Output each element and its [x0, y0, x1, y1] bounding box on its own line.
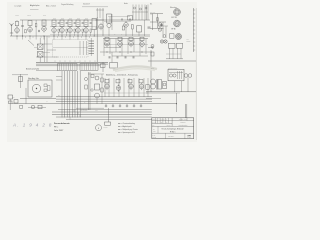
IF transformer IF transformer Tr3 — [52, 20, 56, 27]
transformer box small — [19, 77, 23, 82]
wire — [186, 104, 188, 118]
diode — [133, 104, 135, 107]
wire — [127, 39, 129, 55]
coil — [116, 79, 120, 83]
wire — [166, 53, 181, 55]
capacitor C21 — [160, 23, 162, 27]
wire pair — [89, 72, 91, 110]
wire — [29, 26, 31, 28]
diode — [105, 104, 107, 107]
node H — [163, 35, 166, 38]
cable bundle (8 wires) — [62, 71, 80, 118]
node M — [91, 89, 93, 91]
tuning indicator pair — [160, 40, 167, 43]
wire — [177, 48, 179, 59]
wire stubs — [70, 110, 80, 120]
wire — [131, 29, 133, 36]
wire — [77, 34, 79, 36]
svg-text:EF80: EF80 — [77, 18, 80, 20]
svg-text:FE 852 C: FE 852 C — [170, 131, 176, 133]
wire stub — [79, 60, 81, 62]
svg-text:zum Tuner: zum Tuner — [150, 12, 156, 14]
wire — [56, 98, 152, 100]
band switch S2 — [80, 64, 98, 71]
wire stub — [53, 36, 55, 40]
wire — [111, 52, 113, 63]
svg-text:Jahr 1957: Jahr 1957 — [54, 129, 64, 132]
capacitor C16 — [125, 56, 126, 58]
choke — [163, 82, 167, 89]
antenna — [10, 23, 14, 33]
wire — [56, 79, 62, 81]
coil L5 — [132, 25, 134, 30]
fuse Si1 — [105, 122, 111, 125]
wire — [34, 47, 37, 49]
wire — [104, 44, 148, 46]
svg-text:102-852: 102-852 — [152, 137, 156, 139]
wire — [169, 48, 171, 59]
wire — [96, 17, 98, 62]
svg-text:FE c: FE c — [54, 126, 58, 128]
wire — [145, 39, 147, 55]
tube Rö18 (PY 81) — [129, 83, 134, 90]
electrolytic capacitor C22 — [151, 45, 154, 48]
coil — [140, 37, 144, 41]
wire — [58, 109, 152, 111]
wire — [85, 34, 87, 36]
capacitor coupling — [90, 22, 92, 25]
wire — [90, 38, 92, 56]
shield box video amp — [107, 14, 112, 23]
wire — [39, 38, 41, 44]
IF transformer Tr2 — [42, 20, 46, 26]
wire junction dots — [106, 51, 142, 52]
wire stub — [22, 36, 24, 40]
band switch S1 — [58, 64, 78, 71]
capacitor coupling — [58, 22, 60, 25]
capacitor C17 — [133, 56, 134, 58]
IF transformer IF transformer Tr6 — [76, 20, 80, 27]
wire — [22, 20, 24, 24]
resistor R1 — [35, 24, 37, 27]
tube Rö5 (EF 80) — [60, 27, 65, 34]
wire — [181, 81, 183, 92]
resistor R40 — [100, 64, 105, 68]
tube socket diagram EF 80 — [174, 20, 181, 27]
wire — [166, 58, 183, 60]
wire stub — [69, 60, 71, 62]
wire — [96, 98, 98, 104]
wire — [176, 93, 178, 112]
wire — [79, 41, 81, 55]
scan smudge 2 — [115, 69, 155, 72]
rectifier cell 2 — [173, 74, 176, 77]
svg-text:zum: zum — [187, 39, 189, 41]
svg-text:Bl. 1: Bl. 1 — [172, 136, 175, 138]
wire — [43, 43, 52, 45]
svg-text:PCF80: PCF80 — [27, 15, 31, 17]
wire — [44, 36, 46, 62]
legend symbol — [118, 131, 120, 133]
wire stub — [77, 36, 79, 40]
underline of stamp — [30, 8, 39, 10]
wire — [118, 78, 120, 97]
resistor leg — [58, 29, 59, 32]
wire — [152, 14, 154, 30]
wire — [69, 27, 71, 29]
capacitor C12 — [148, 27, 151, 28]
resistor R25 — [122, 26, 125, 30]
wire overline — [82, 6, 108, 8]
wire stub — [54, 60, 56, 62]
capacitor coupling — [82, 22, 84, 25]
wire stub — [48, 36, 50, 38]
wire stub — [16, 36, 18, 40]
motor cap — [31, 105, 35, 109]
resistor R45 — [38, 105, 42, 108]
tube socket diagram EABC 80 — [175, 33, 181, 39]
tube Rö7 (EF 80) — [76, 27, 81, 34]
variable capacitor C30 — [37, 44, 43, 49]
wire screen rail partial — [50, 34, 150, 36]
wire — [99, 8, 101, 18]
wire — [77, 27, 79, 29]
wire diagonal — [28, 40, 34, 46]
svg-text:EF 80: EF 80 — [172, 28, 176, 30]
wire stub — [43, 36, 45, 40]
wire — [138, 78, 140, 97]
resistor leg — [90, 29, 91, 32]
wire — [53, 47, 88, 49]
capacitor C15 — [117, 56, 118, 58]
wire — [165, 26, 167, 38]
svg-text:EF80: EF80 — [85, 18, 88, 20]
wire — [138, 32, 140, 36]
wire — [148, 47, 153, 49]
wire — [108, 22, 110, 24]
tube Rö3 (EF 80) — [42, 25, 47, 32]
capacitor C2 — [39, 30, 40, 32]
stamp circle — [96, 125, 102, 131]
wire stub — [32, 36, 34, 38]
tube Rö19 (DY 86) — [139, 83, 144, 90]
mains transformer — [151, 79, 162, 90]
wire — [123, 78, 125, 97]
wire stub — [40, 36, 42, 38]
svg-text:220V: 220V — [12, 97, 15, 99]
wire — [150, 50, 152, 92]
wire stub — [59, 60, 61, 62]
svg-text:ECC 85: ECC 85 — [172, 17, 177, 19]
IF transformer Tr9 — [137, 26, 142, 32]
svg-text:Tr 10: Tr 10 — [151, 68, 154, 70]
legend symbol — [118, 128, 120, 130]
wire — [162, 22, 164, 38]
resistor R22 — [151, 52, 154, 56]
wire — [104, 92, 148, 94]
connector block X4 — [20, 106, 23, 109]
tube Rö2 (PCF 80) — [28, 26, 33, 33]
wire — [12, 74, 28, 76]
wire — [9, 99, 11, 110]
svg-text:Maß 1:1: Maß 1:1 — [167, 125, 171, 127]
wire — [82, 32, 84, 36]
wire chassis bus — [36, 61, 108, 63]
capacitor C14 — [109, 56, 110, 58]
resistor R2 — [25, 30, 27, 33]
title block — [152, 118, 194, 140]
wire — [95, 27, 99, 29]
resistor ladder R34 — [89, 50, 95, 52]
capacitor coupling — [74, 22, 76, 25]
svg-text:A. 1 9 4 2 8: A. 1 9 4 2 8 — [12, 123, 53, 128]
svg-text:= Spannungen ±10%: = Spannungen ±10% — [121, 132, 135, 134]
wire — [52, 114, 152, 116]
wire junction dots — [16, 35, 44, 36]
wire — [12, 103, 56, 105]
wire stub — [89, 60, 91, 62]
svg-text:Bl.1: Bl.1 — [150, 3, 153, 5]
resistor R59 — [85, 85, 88, 89]
wire — [56, 76, 62, 78]
wire — [43, 52, 50, 54]
wire — [53, 27, 55, 29]
wire — [108, 16, 130, 18]
tube Rö11 (PABC 80) — [124, 21, 129, 28]
wire — [93, 30, 95, 37]
variable capacitor C31 — [37, 52, 43, 57]
capacitor C1 — [21, 24, 23, 28]
wire — [139, 39, 141, 57]
wire — [108, 108, 110, 122]
wire stub — [74, 60, 76, 62]
wire — [111, 14, 113, 30]
wire — [146, 97, 161, 99]
wire — [101, 74, 103, 104]
wire — [61, 27, 63, 29]
legend symbol — [118, 126, 120, 128]
selenium stack — [169, 71, 183, 79]
wire — [88, 73, 104, 75]
coil — [105, 79, 109, 83]
tube Rö15 (EL 84) — [140, 40, 145, 47]
IF transformer IF transformer Tr7 — [84, 20, 88, 27]
wire stub — [84, 60, 86, 62]
peaking coil group — [132, 5, 148, 21]
resistor leg — [74, 29, 75, 32]
capacitor C80 — [184, 74, 188, 78]
svg-text:EF80: EF80 — [61, 18, 64, 20]
wire — [16, 26, 18, 28]
coil L1 — [15, 22, 19, 26]
wire anode rail — [20, 19, 150, 21]
wire junction dots — [53, 35, 94, 36]
wire pair — [88, 72, 90, 110]
svg-text:a 12.3. Kr: a 12.3. Kr — [152, 119, 157, 121]
wire — [95, 19, 104, 21]
wire — [133, 39, 135, 53]
shield box small — [170, 34, 175, 39]
wire stub — [35, 36, 37, 40]
wire — [69, 34, 71, 36]
wire — [187, 77, 189, 92]
wire — [104, 21, 131, 23]
sound discriminator box — [128, 16, 133, 20]
wire stub — [81, 36, 83, 38]
wire stub — [25, 36, 27, 38]
resistor leg — [66, 29, 67, 32]
crystal diode pair — [158, 23, 162, 32]
node K — [129, 19, 131, 21]
svg-text:EF80: EF80 — [53, 18, 56, 20]
wire — [35, 20, 37, 24]
shielded coil Tr8 — [92, 19, 97, 30]
wire heater bus — [36, 63, 108, 65]
wire — [43, 25, 45, 28]
tube socket diagram ECC 85 — [174, 9, 181, 16]
resistor ladder R33 — [89, 48, 95, 50]
wire — [25, 88, 27, 104]
electrolytic capacitor C61 — [95, 93, 100, 98]
wire — [104, 78, 106, 97]
svg-text:PCC84: PCC84 — [15, 15, 19, 17]
loudspeaker — [28, 80, 52, 97]
terminal strip — [193, 8, 195, 52]
wire — [36, 56, 58, 58]
wire — [56, 103, 177, 105]
wire — [66, 32, 68, 36]
power supply box — [168, 69, 184, 81]
wire stub — [29, 36, 31, 40]
wire — [85, 27, 87, 29]
resistor R63 — [101, 88, 103, 92]
wire — [102, 8, 104, 36]
wire — [108, 28, 110, 36]
capacitor coupling — [66, 22, 68, 25]
wire — [22, 28, 24, 36]
svg-text:EF80: EF80 — [69, 18, 72, 20]
tube Rö8 (EF 80) — [84, 27, 89, 34]
wire — [56, 100, 152, 102]
svg-text:6,3V: 6,3V — [150, 14, 153, 16]
wire — [102, 62, 104, 72]
wire — [56, 116, 152, 118]
wire — [115, 39, 117, 53]
wire — [108, 78, 110, 97]
svg-text:= Chassisverbindung: = Chassisverbindung — [121, 123, 135, 125]
wire — [128, 78, 130, 97]
drawing area tint — [7, 2, 197, 142]
wire — [96, 9, 104, 11]
svg-text:EF80: EF80 — [43, 15, 46, 17]
wire — [112, 55, 148, 57]
resistor R21 — [157, 18, 159, 21]
wire — [157, 14, 159, 28]
wire — [76, 107, 104, 109]
wire — [11, 33, 13, 36]
tube Rö13 (EF 85) — [118, 40, 123, 47]
electrolytic capacitor C60 — [95, 76, 99, 80]
resistor ladder R31 — [89, 43, 95, 45]
coil — [139, 79, 143, 83]
sheet right border — [195, 8, 197, 140]
wire — [90, 32, 92, 36]
legend symbol — [118, 123, 120, 125]
node J — [121, 19, 123, 21]
connector box K1 — [110, 63, 118, 69]
connector block X3 — [14, 100, 18, 104]
wire — [74, 32, 76, 36]
wire — [104, 47, 121, 49]
diode — [140, 104, 142, 107]
wire — [53, 34, 55, 36]
wire — [20, 74, 22, 88]
relay box 2 — [177, 43, 183, 48]
wire — [82, 41, 84, 55]
wire — [133, 78, 135, 97]
coil — [128, 79, 132, 83]
wire — [146, 92, 180, 94]
wire stub — [61, 36, 63, 40]
IF transformer IF transformer Tr5 — [68, 20, 72, 27]
wire — [113, 78, 115, 97]
wire — [47, 49, 56, 51]
wire — [56, 96, 152, 98]
wire coupling rail — [50, 26, 97, 28]
wire — [180, 48, 182, 59]
resistor R58 — [91, 75, 94, 78]
wire — [36, 70, 58, 72]
wire — [35, 27, 37, 36]
wire — [109, 39, 111, 55]
wire — [144, 20, 146, 36]
wire — [28, 107, 46, 109]
node G — [152, 47, 154, 49]
wire stub — [64, 60, 66, 62]
wire — [85, 41, 87, 55]
wire stub — [65, 36, 67, 38]
tube Rö6 (EF 80) — [68, 27, 73, 34]
wire stub — [57, 36, 59, 38]
tube Rö1 (PCC 84) — [15, 27, 20, 34]
svg-text:c 7.9. Me: c 7.9. Me — [160, 119, 165, 121]
wire — [58, 32, 60, 36]
resistor ladder R32 — [89, 45, 95, 47]
tube Rö16 (PCL 82) — [105, 83, 110, 90]
IF transformer Tr1 — [28, 21, 32, 26]
svg-text:Fernsehchassis: Fernsehchassis — [54, 122, 71, 125]
tube Rö9 (EF 80) — [99, 23, 104, 30]
wire — [121, 39, 123, 57]
wire — [172, 48, 174, 59]
wire — [150, 21, 166, 23]
wire — [109, 17, 111, 22]
wire — [174, 81, 176, 92]
svg-text:Name: Name — [153, 131, 156, 133]
svg-text:b 4.6. Kr: b 4.6. Kr — [152, 122, 157, 124]
coil — [118, 37, 122, 41]
tube Rö17 (PL 36) — [116, 84, 121, 91]
coil — [129, 37, 133, 41]
shield box (dashed) — [53, 40, 89, 58]
resistor R61 — [95, 84, 100, 90]
svg-text:6,3 V~: 6,3 V~ — [95, 110, 99, 112]
wire — [143, 78, 145, 97]
svg-text:4: 4 — [98, 128, 99, 130]
wire stub — [94, 60, 96, 62]
rectifier cell 1 — [169, 74, 172, 77]
wire — [100, 51, 152, 53]
